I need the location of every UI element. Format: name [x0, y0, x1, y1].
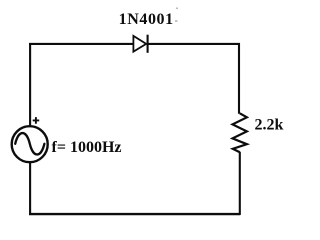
wire top-right (cathode side)	[148, 43, 241, 45]
speck noise dot lower	[175, 20, 178, 22]
wire bottom	[29, 213, 240, 215]
resistor R1 zigzag	[233, 113, 247, 152]
wire left upper	[29, 43, 31, 127]
svg-text:2.2k: 2.2k	[255, 116, 284, 133]
speck noise dot upper	[176, 8, 178, 10]
wire right upper	[238, 43, 240, 114]
diode D1 triangle (anode)	[133, 36, 146, 52]
ac source V1 sine wave	[15, 133, 44, 154]
wire top-left (anode side)	[29, 43, 133, 45]
svg-text:1N4001: 1N4001	[119, 11, 174, 28]
ac source V1 circle	[12, 126, 48, 162]
wire left lower	[29, 163, 31, 215]
diode D1 cathode bar	[147, 35, 149, 53]
wire right lower	[239, 152, 241, 215]
svg-text:f= 1000Hz: f= 1000Hz	[52, 139, 122, 156]
ac source V1 plus polarity mark	[33, 117, 40, 124]
